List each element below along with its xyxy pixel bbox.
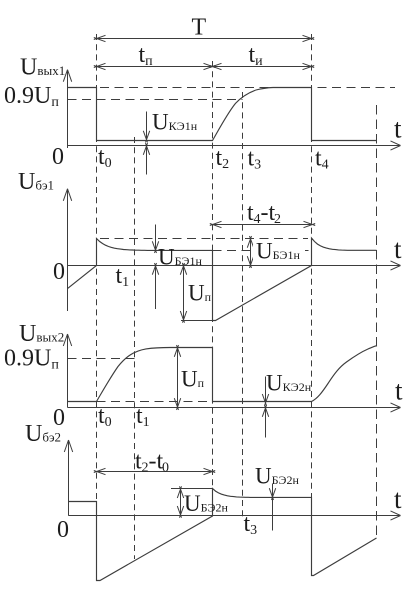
U_vyx2 y-axis <box>67 334 69 408</box>
dimension T period arrow <box>97 38 312 40</box>
right boundary gridline <box>376 105 378 539</box>
dimension Un arrow W2 <box>183 267 185 320</box>
dimension U_BE2n arrow <box>272 484 274 531</box>
U_vyx1 y-axis <box>67 70 69 148</box>
U_be2 t-axis <box>68 515 399 517</box>
svg-text:0: 0 <box>162 461 169 476</box>
svg-text:t: t <box>395 376 403 406</box>
svg-text:2: 2 <box>142 461 149 476</box>
dimension U_BE1n right arrow <box>250 239 252 266</box>
dimension U_KE1n arrows <box>146 112 148 140</box>
time gridline t0 <box>96 34 98 502</box>
dimension t_i arrow <box>213 66 312 68</box>
dashed level 0.9Un W1 <box>68 99 243 101</box>
svg-text:2: 2 <box>274 212 281 227</box>
svg-text:4: 4 <box>254 212 261 227</box>
bottom extension line W2 <box>181 320 213 322</box>
waveform U_be1 <box>68 238 377 321</box>
dimension U_BE2n inner arrow <box>180 490 182 515</box>
svg-text:t: t <box>394 234 402 264</box>
dimension Un arrow W3 <box>177 349 179 407</box>
extension line U_BE2n level <box>171 488 213 490</box>
dimension t2-t0 arrow <box>97 471 213 473</box>
waveform U_be2 <box>69 489 377 581</box>
dashed peak level W2 <box>100 238 308 240</box>
dimension U_BE1n left arrows <box>155 225 157 251</box>
time gridline t3 <box>242 92 244 517</box>
svg-text:0: 0 <box>53 405 65 431</box>
time gridline t2 <box>212 61 214 516</box>
svg-text:0.9Uп: 0.9Uп <box>4 346 59 373</box>
dimension U_KE2n arrows <box>265 377 267 404</box>
dimension t_p arrow <box>97 66 213 68</box>
svg-text:T: T <box>192 15 207 41</box>
U_be1 y-axis <box>67 189 69 311</box>
svg-text:0: 0 <box>52 144 64 170</box>
svg-text:0: 0 <box>53 259 65 285</box>
waveform U_vyx1 <box>68 88 377 141</box>
dimension t4-t2 arrow <box>213 224 313 226</box>
svg-text:t: t <box>394 484 402 514</box>
svg-text:0.9Uп: 0.9Uп <box>4 83 59 110</box>
svg-text:t: t <box>394 114 402 144</box>
dashed U_BE1n level W2 <box>213 250 312 252</box>
svg-text:0: 0 <box>57 517 69 543</box>
U_be2 y-axis <box>68 440 70 516</box>
time gridline t1 <box>134 137 136 559</box>
U_vyx2 t-axis <box>68 407 400 409</box>
label U_BE1n right <box>253 244 305 261</box>
U_be1 t-axis <box>68 265 400 267</box>
dashed level 0.9Un W3 <box>68 358 135 360</box>
dashed level Un W1 <box>100 87 395 89</box>
dashed low level W3 <box>97 401 213 403</box>
time gridline t4 <box>311 34 313 576</box>
U_vyx1 t-axis <box>68 145 400 147</box>
waveform U_vyx2 <box>68 346 378 402</box>
